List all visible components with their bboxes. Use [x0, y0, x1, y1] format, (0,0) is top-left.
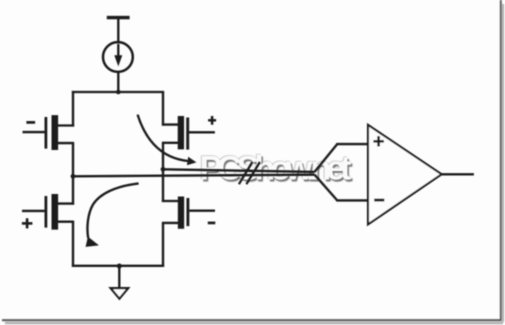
watermark PCShow.net — [199, 149, 353, 190]
VDD supply bar — [107, 16, 130, 19]
transistor M1 (top-left) — [23, 115, 75, 150]
node A (upper output junction) — [161, 167, 166, 172]
wire: top rail to M2 drain — [162, 92, 164, 126]
wire: node A down to M4 drain — [162, 169, 164, 202]
transistor M3 (bottom-left) — [22, 194, 74, 230]
ground — [111, 288, 129, 299]
wire: bottom rail to ground — [118, 266, 120, 288]
signal-path arrow (lower, from node B) — [86, 183, 139, 247]
pin label − (U1 inverting) — [374, 199, 384, 202]
wire: current source to top rail — [117, 72, 119, 92]
wire: upper output line to fork — [163, 169, 315, 172]
node: top rail — [72, 90, 164, 95]
wire: lower output line to fork — [73, 175, 315, 177]
wire: M4 source to bottom rail — [162, 223, 164, 267]
wire: op-amp − input lead — [336, 199, 368, 201]
wire: node B down to M3 drain — [72, 176, 74, 204]
wire: M2 source down to upper output node — [162, 143, 164, 171]
transistor M2 (top-right) — [162, 116, 215, 150]
label − (M1 gate) — [26, 121, 35, 124]
wire: top rail to M1 drain — [72, 91, 74, 127]
transistor M4 (bottom-right) — [162, 197, 215, 229]
wire: fork upper diagonal — [315, 144, 338, 172]
break marks on output pair — [239, 162, 260, 184]
signal-path arrow (upper, to node A) — [138, 115, 197, 166]
wire: bar to current source — [117, 19, 119, 44]
label − (M4 gate) — [208, 222, 216, 225]
node B (lower output junction) — [71, 174, 76, 179]
node: bottom rail — [72, 264, 164, 269]
wire: op-amp + input lead — [336, 143, 368, 145]
label + (M3 gate) — [22, 218, 33, 228]
wire: fork lower diagonal — [315, 175, 338, 201]
wire: M3 source to bottom rail — [72, 222, 74, 267]
wire: op-amp output — [442, 173, 474, 175]
pin label + (U1 non-inverting) — [373, 136, 384, 146]
wire: M1 source down to lower output line — [72, 143, 74, 177]
label + (M2 gate) — [208, 116, 216, 125]
current source I1 — [103, 42, 133, 72]
op-amp U1 — [368, 125, 442, 224]
